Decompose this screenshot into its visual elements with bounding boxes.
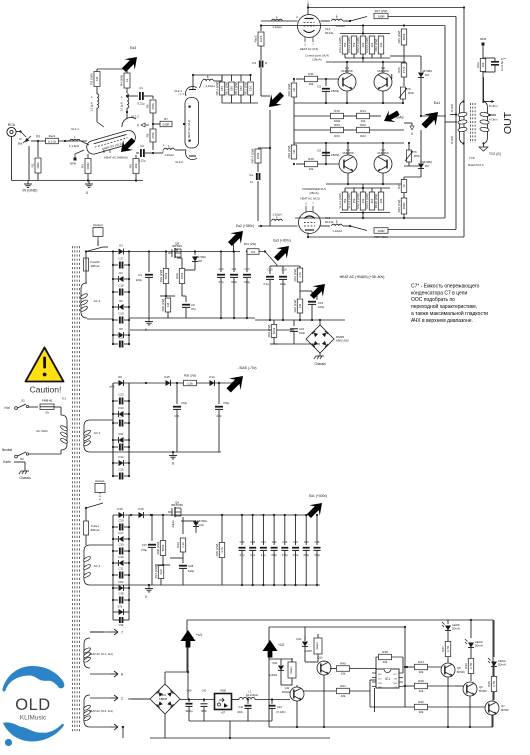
svg-text:4k (2W): 4k (2W) xyxy=(451,136,454,145)
svg-text:10k: 10k xyxy=(309,167,314,171)
resistor R49 12k xyxy=(403,685,414,687)
svg-text:(25mА): (25mА) xyxy=(312,58,321,62)
rail AC2 lower 320 xyxy=(255,319,345,321)
svg-text:4 Ohm: 4 Ohm xyxy=(489,118,498,122)
pot R49 7K xyxy=(401,87,406,99)
svg-text:C6: C6 xyxy=(317,149,321,153)
svg-text:R46 (1W): R46 (1W) xyxy=(397,200,401,213)
svg-text:HEAT AC (5,6): HEAT AC (5,6) xyxy=(300,47,318,51)
svg-text:4k (2W): 4k (2W) xyxy=(451,104,454,113)
capacitor C5 1800p xyxy=(325,79,327,86)
svg-text:IN (GND): IN (GND) xyxy=(23,189,38,193)
capacitor bank C29-C35 xyxy=(241,515,243,545)
wire loop inner xyxy=(444,26,446,219)
capacitor C16 100n xyxy=(293,320,295,326)
wire Ea2 column xyxy=(269,110,271,226)
svg-text:0: 0 xyxy=(137,124,139,128)
resistor bank R8.x xyxy=(193,74,250,76)
logo OLD KLIMusic xyxy=(2,666,63,692)
svg-text:1,5k: 1,5k xyxy=(187,381,193,385)
zener D23 1N4739A C20 xyxy=(181,520,196,522)
rail 5v xyxy=(180,699,215,701)
svg-text:7K: 7K xyxy=(407,87,411,91)
svg-text:KLIMusic: KLIMusic xyxy=(20,715,47,722)
svg-text:BC546: BC546 xyxy=(501,709,509,712)
svg-text:A: A xyxy=(296,15,298,19)
svg-text:10k: 10k xyxy=(341,672,346,676)
svg-text:2.2μ: 2.2μ xyxy=(263,282,269,286)
svg-text:IRF830: IRF830 xyxy=(172,244,182,248)
svg-text:2: 2 xyxy=(121,696,123,700)
svg-text:OLD: OLD xyxy=(15,696,50,714)
svg-text:AC-1: AC-1 xyxy=(94,564,101,568)
capacitor C3b xyxy=(256,173,258,180)
resistor R45 4.7k led xyxy=(491,677,497,692)
tube VL4 heater pins xyxy=(304,37,306,42)
capacitor C21 470u xyxy=(176,383,178,404)
svg-text:VL3.1 (2W): VL3.1 (2W) xyxy=(338,193,342,208)
svg-text:1k: 1k xyxy=(125,78,129,82)
resistor R8.2 xyxy=(231,75,233,81)
svg-text:56k: 56k xyxy=(18,142,23,146)
svg-text:R40: R40 xyxy=(340,662,346,666)
resistor R11 10k xyxy=(305,76,318,82)
svg-text:Caution!: Caution! xyxy=(30,385,62,395)
svg-text:R5: R5 xyxy=(146,104,150,108)
diode D9 xyxy=(119,380,124,386)
svg-text:470k: 470k xyxy=(151,103,155,110)
svg-text:RCA: RCA xyxy=(8,123,16,127)
svg-text:Rsc5: Rsc5 xyxy=(254,35,258,42)
chassis mains xyxy=(24,468,26,471)
svg-text:PIR 4 (2W): PIR 4 (2W) xyxy=(251,149,255,164)
led LED4 xyxy=(492,620,494,657)
svg-text:C14: C14 xyxy=(282,268,287,272)
svg-text:C28: C28 xyxy=(188,564,194,568)
winding AC1 xyxy=(84,545,90,585)
svg-text:R19: R19 xyxy=(308,157,314,161)
svg-text:R12b (2W): R12b (2W) xyxy=(374,194,378,209)
resistor R8.4 xyxy=(250,75,252,81)
svg-text:Q10: Q10 xyxy=(318,656,323,660)
wire xyxy=(59,140,88,142)
winding HEAT AC VL1 VL2 xyxy=(84,638,90,668)
wire ground bus input xyxy=(11,137,13,181)
tube VL2 tall envelope xyxy=(185,98,199,149)
svg-text:Ca: Ca xyxy=(249,173,253,177)
bridge D801 xyxy=(150,684,180,714)
svg-text:1-10μH: 1-10μH xyxy=(205,84,214,88)
svg-text:470μ: 470μ xyxy=(181,401,188,405)
svg-text:R3: R3 xyxy=(81,164,85,168)
wire bridge top xyxy=(164,672,166,684)
control box frame xyxy=(187,619,493,621)
switch S1 xyxy=(17,404,26,408)
resistor R48 10k xyxy=(379,654,392,660)
wire collector rail lower xyxy=(294,142,404,144)
rail AC1 top 515 xyxy=(113,514,310,516)
svg-text:C36: C36 xyxy=(315,540,320,544)
pot R50 7K xyxy=(407,150,412,162)
wire AC2 bottom xyxy=(87,318,113,320)
svg-text:200R: 200R xyxy=(162,122,170,126)
svg-text:1-10μH: 1-10μH xyxy=(332,229,341,233)
wire VL2 plate top xyxy=(192,75,194,90)
transformer TVZ primary xyxy=(460,102,464,144)
relay Relay3 xyxy=(93,228,103,237)
svg-text:D8: D8 xyxy=(119,327,123,331)
diode D15 xyxy=(166,380,171,386)
svg-text:R12.2 (2W): R12.2 (2W) xyxy=(356,37,360,52)
svg-text:100μ: 100μ xyxy=(318,305,325,309)
svg-text:R13.4 (2W): R13.4 (2W) xyxy=(365,193,369,208)
capacitor C2 0.22u xyxy=(136,152,139,154)
svg-text:186: 186 xyxy=(249,86,253,91)
resistor R15c 500k lower xyxy=(401,198,407,214)
svg-text:конденсатора С7 в цепи: конденсатора С7 в цепи xyxy=(411,290,468,296)
svg-text:TVZ: TVZ xyxy=(469,156,475,160)
svg-text:TVZ (G): TVZ (G) xyxy=(489,152,501,156)
wire loop outer xyxy=(463,8,465,238)
wire collector rail upper xyxy=(294,102,404,104)
wire bank bottom feed xyxy=(362,213,364,219)
svg-text:Tr1: Tr1 xyxy=(62,397,67,401)
svg-text:R6: R6 xyxy=(129,164,133,168)
capacitor C1 0.22u xyxy=(127,95,138,97)
svg-text:R22: R22 xyxy=(476,62,480,68)
rail Ea2 +350v xyxy=(129,251,240,253)
svg-text:NFB: NFB xyxy=(480,37,486,41)
wire VL3 bottom plate xyxy=(307,233,309,238)
inductor L plate VL1.1 xyxy=(97,94,99,108)
svg-text:C33: C33 xyxy=(282,540,287,544)
svg-text:+U2: +U2 xyxy=(278,643,284,647)
svg-text:500k: 500k xyxy=(402,33,406,40)
svg-text:D20: D20 xyxy=(119,580,124,584)
svg-text:D3: D3 xyxy=(119,244,123,248)
svg-text:Chassis: Chassis xyxy=(19,476,31,480)
wire C13 C14 node xyxy=(276,265,278,266)
inductor L plate VL1.2 xyxy=(127,94,129,108)
resistor R6 20k xyxy=(135,155,137,158)
inductor L VL2 right xyxy=(203,79,214,81)
resistor R22 10k xyxy=(357,127,370,133)
svg-text:R45: R45 xyxy=(487,681,491,687)
svg-text:+5?: +5? xyxy=(221,711,226,715)
zener D4 1N4748A xyxy=(420,56,422,70)
capacitor C11 330u xyxy=(233,252,235,273)
svg-text:R32 (1W): R32 (1W) xyxy=(293,300,297,313)
wire bank top lower xyxy=(345,187,390,189)
winding AC3 xyxy=(84,420,90,452)
svg-text:D18: D18 xyxy=(119,555,124,559)
resistor bank upper R13.x xyxy=(340,33,390,35)
svg-text:R22: R22 xyxy=(360,123,366,127)
tube VL4 6K13L xyxy=(298,15,321,38)
svg-text:R50: R50 xyxy=(414,154,420,158)
inductor L to VL2 grid xyxy=(164,148,175,150)
svg-text:VL1.2: VL1.2 xyxy=(131,115,139,119)
svg-text:VL3.2 (2W): VL3.2 (2W) xyxy=(347,193,351,208)
svg-text:R31 (2W): R31 (2W) xyxy=(293,269,297,282)
svg-text:Q8: Q8 xyxy=(457,666,461,670)
rail BIAS mid xyxy=(113,451,221,453)
svg-text:R24: R24 xyxy=(334,134,340,138)
resistor R14 10k xyxy=(357,113,370,119)
svg-text:KBU1010: KBU1010 xyxy=(336,339,349,343)
svg-text:20k: 20k xyxy=(134,163,138,168)
svg-text:1k: 1k xyxy=(402,184,406,188)
bridge DM35 KBU1010 xyxy=(306,325,334,353)
resistor R44 10k xyxy=(405,666,414,668)
svg-text:C1: C1 xyxy=(139,86,143,90)
svg-text:1-10μH: 1-10μH xyxy=(272,213,281,217)
svg-text:R8.1 (2W): R8.1 (2W) xyxy=(224,82,228,96)
resistor R31 0.8R xyxy=(247,249,259,255)
svg-text:R44: R44 xyxy=(418,660,424,664)
svg-text:800mA: 800mA xyxy=(91,528,100,532)
svg-text:4,7k: 4,7k xyxy=(298,272,302,278)
svg-text:C3: C3 xyxy=(252,61,256,65)
resistor R33 820k xyxy=(273,320,275,324)
svg-text:4,7R: 4,7R xyxy=(492,680,496,687)
svg-text:Q11: Q11 xyxy=(285,686,290,690)
transistor Q3 MJE350 xyxy=(339,155,357,173)
svg-text:Ea3: Ea3 xyxy=(130,46,136,50)
svg-text:C18: C18 xyxy=(119,284,124,288)
svg-text:10k: 10k xyxy=(419,670,424,674)
svg-text:C34: C34 xyxy=(293,540,298,544)
svg-text:0.22μ: 0.22μ xyxy=(138,159,145,163)
capacitor C43 47-100n xyxy=(271,700,273,705)
svg-text:BC546: BC546 xyxy=(479,690,487,693)
led LED3 xyxy=(470,620,472,638)
resistor R24 100k xyxy=(331,127,344,133)
svg-text:C38: C38 xyxy=(119,592,124,596)
svg-text:C40: C40 xyxy=(187,689,192,693)
switch to R17 xyxy=(350,17,367,22)
svg-text:20k: 20k xyxy=(481,62,485,67)
svg-text:4,7k: 4,7k xyxy=(220,547,224,553)
svg-text:47μ: 47μ xyxy=(191,307,196,311)
transistor Q1 MJE350 xyxy=(338,73,356,91)
svg-text:R4 (2W): R4 (2W) xyxy=(120,75,124,86)
flag BIAS xyxy=(381,107,402,127)
fuse Fuse1 800mA xyxy=(85,508,87,521)
svg-text:260mA: 260mA xyxy=(91,264,100,268)
svg-text:4,7R: 4,7R xyxy=(446,645,450,652)
resistor R37 xyxy=(155,564,170,566)
svg-text:C21: C21 xyxy=(174,414,180,418)
svg-text:400R: 400R xyxy=(402,202,406,210)
svg-text:а также максимальной гладкости: а также максимальной гладкости xyxy=(411,310,488,317)
svg-text:S1: S1 xyxy=(21,399,25,403)
svg-text:R13.1 (2W): R13.1 (2W) xyxy=(338,37,342,52)
flag Ea1 +400v xyxy=(304,498,328,522)
inductor L VL3 right xyxy=(321,225,331,227)
svg-text:R18 (2W): R18 (2W) xyxy=(287,146,291,159)
svg-text:0: 0 xyxy=(86,191,88,195)
svg-text:HEAT AC (VL2): HEAT AC (VL2) xyxy=(187,120,191,139)
resistor PDR 100R xyxy=(374,228,388,234)
svg-text:D6: D6 xyxy=(119,299,123,303)
resistor R16 100k xyxy=(331,113,344,119)
svg-text:820k: 820k xyxy=(272,327,276,334)
svg-text:Relay3: Relay3 xyxy=(93,223,103,227)
svg-text:1800p: 1800p xyxy=(331,89,340,93)
svg-text:IC1: IC1 xyxy=(385,677,390,681)
resistor R46 4.7k led xyxy=(468,659,474,674)
transistor Q4 MJE350 xyxy=(374,155,392,173)
rail R17 right xyxy=(388,16,456,18)
svg-text:R17 (2W): R17 (2W) xyxy=(375,9,388,13)
svg-text:Q9: Q9 xyxy=(479,685,483,689)
svg-text:R42: R42 xyxy=(418,700,424,704)
transistor Q10 BC546 xyxy=(290,687,304,701)
svg-text:Earth: Earth xyxy=(3,460,11,464)
svg-text:1n4002: 1n4002 xyxy=(269,674,278,677)
resistor R39 1.1k xyxy=(182,517,184,534)
fuse F488 2A xyxy=(40,404,54,410)
wire NFB to secondary xyxy=(483,77,485,102)
svg-text:C27: C27 xyxy=(142,543,148,547)
svg-text:1M: 1M xyxy=(95,76,99,81)
transistor Q8 BC546 xyxy=(441,663,455,677)
svg-text:D22: D22 xyxy=(297,637,302,641)
capacitor C15 100u xyxy=(316,291,318,300)
tube VL1 6N2P-EV diagonal envelope xyxy=(85,129,137,156)
resistor R42 10k xyxy=(415,704,428,710)
mosfet Q8 IRF830 xyxy=(174,248,176,258)
svg-text:HEAT AC (VL1, 1L2): HEAT AC (VL1, 1L2) xyxy=(89,652,113,656)
svg-text:R11: R11 xyxy=(308,72,314,76)
svg-text:Q7: Q7 xyxy=(501,704,505,708)
svg-text:C32: C32 xyxy=(272,540,277,544)
wire TVZ taps xyxy=(484,101,495,103)
transformer TVZ core xyxy=(470,103,472,143)
svg-text:R35 (2W): R35 (2W) xyxy=(215,544,219,557)
svg-text:C41: C41 xyxy=(202,689,207,693)
winding HEAT AC VL3 VL4 xyxy=(84,695,90,727)
svg-text:4,7R: 4,7R xyxy=(469,662,473,669)
svg-text:100n: 100n xyxy=(299,331,306,335)
switch S2 xyxy=(60,450,62,454)
svg-text:R15 (2W): R15 (2W) xyxy=(397,31,401,44)
svg-text:C29: C29 xyxy=(119,519,124,523)
svg-text:Relay1: Relay1 xyxy=(95,479,105,483)
svg-text:R1: R1 xyxy=(31,163,35,167)
relay Relay1 contact xyxy=(95,484,105,493)
svg-text:8: 8 xyxy=(121,672,123,676)
svg-text:R38 (2W): R38 (2W) xyxy=(156,542,160,555)
svg-text:C24: C24 xyxy=(119,415,124,419)
ic IC1 xyxy=(376,669,399,688)
svg-text:R39: R39 xyxy=(176,542,180,548)
rectifier chain AC2 (D3 C17 D4 C18 D6 C19 D8) xyxy=(112,252,114,345)
svg-text:OUT: OUT xyxy=(502,111,514,134)
flag +U1 xyxy=(181,630,196,648)
svg-text:C23: C23 xyxy=(119,393,124,397)
resistor R 56k xyxy=(23,136,31,143)
svg-text:(25mА): (25mА) xyxy=(309,191,318,195)
svg-text:100R: 100R xyxy=(377,14,385,18)
svg-text:0: 0 xyxy=(411,132,413,136)
resistor R35 4.7k xyxy=(221,515,223,542)
chassis AC2 xyxy=(319,353,321,356)
wire VL3 left grid xyxy=(258,225,298,227)
svg-text:C39: C39 xyxy=(119,623,124,627)
svg-text:PDR (5W): PDR (5W) xyxy=(374,235,388,239)
tube VL3 heater pins xyxy=(305,206,307,212)
svg-text:jF: jF xyxy=(264,61,268,65)
svg-text:C25: C25 xyxy=(119,468,124,472)
transistor Q11 BC546 xyxy=(317,661,331,675)
zener D8 1N4739A xyxy=(194,252,196,256)
rail BIAS top xyxy=(113,382,236,384)
ground 0 bias xyxy=(411,123,413,126)
svg-text:Ea1: Ea1 xyxy=(434,101,440,105)
svg-text:Rsc1: Rsc1 xyxy=(49,134,56,138)
wire loop mid xyxy=(455,17,457,230)
resistor R7 200R xyxy=(153,123,160,125)
svg-text:Adjust: Adjust xyxy=(172,520,175,527)
svg-text:Ea3 (+300v): Ea3 (+300v) xyxy=(273,239,290,243)
svg-text:мFВ: мFВ xyxy=(110,386,115,389)
svg-text:1-1.5μH: 1-1.5μH xyxy=(90,102,94,111)
flag HEAT AC +BIAS xyxy=(307,279,331,303)
tube VL1.2 half envelope xyxy=(122,117,136,127)
svg-text:C11: C11 xyxy=(232,267,237,271)
resistor R47 4.7k led xyxy=(445,642,451,657)
svg-text:BC546: BC546 xyxy=(457,671,465,674)
svg-text:R48: R48 xyxy=(382,650,388,654)
flag Ea3 +300v xyxy=(271,241,295,265)
svg-text:переходной характеристике,: переходной характеристике, xyxy=(411,303,477,310)
rail top y7 xyxy=(308,7,464,9)
svg-text:R37 (2W): R37 (2W) xyxy=(154,566,158,579)
resistor R47 lower xyxy=(401,180,407,193)
resistor R8.1 xyxy=(221,75,223,81)
wire AC2 gnd rail xyxy=(129,317,149,319)
inductor L VL4 left xyxy=(272,19,283,21)
wire AC3 chain links xyxy=(112,383,114,476)
resistor Rsc5 xyxy=(260,25,262,31)
ground TVZ xyxy=(483,144,485,148)
flag -BIAS -70v xyxy=(223,370,249,396)
svg-text:R13.4 (2W): R13.4 (2W) xyxy=(365,37,369,52)
svg-text:D16: D16 xyxy=(117,507,123,511)
capacitor C6 1800p xyxy=(325,150,327,164)
svg-text:C20: C20 xyxy=(119,336,124,340)
diode D18b with C39 xyxy=(113,611,129,613)
svg-text:VL1.1: VL1.1 xyxy=(71,127,79,131)
svg-text:1800p: 1800p xyxy=(331,153,340,157)
svg-text:470μ: 470μ xyxy=(141,548,147,552)
svg-text:1-10μH: 1-10μH xyxy=(335,24,344,28)
wire VL4 left grid xyxy=(261,20,298,22)
resistor R2 1M xyxy=(94,72,100,87)
svg-text:12k: 12k xyxy=(419,689,424,693)
svg-text:0,8: 0,8 xyxy=(251,250,256,254)
svg-text:R2 (2W): R2 (2W) xyxy=(90,73,94,84)
svg-text:100μ: 100μ xyxy=(188,569,195,573)
svg-text:10k: 10k xyxy=(379,198,383,203)
svg-text:1-10μH: 1-10μH xyxy=(164,153,173,157)
rectifier chain AC1 xyxy=(119,512,124,518)
resistor R36 1.5k xyxy=(184,380,197,386)
flag Ea1 xyxy=(418,106,444,132)
resistor R29 100k xyxy=(181,258,183,268)
